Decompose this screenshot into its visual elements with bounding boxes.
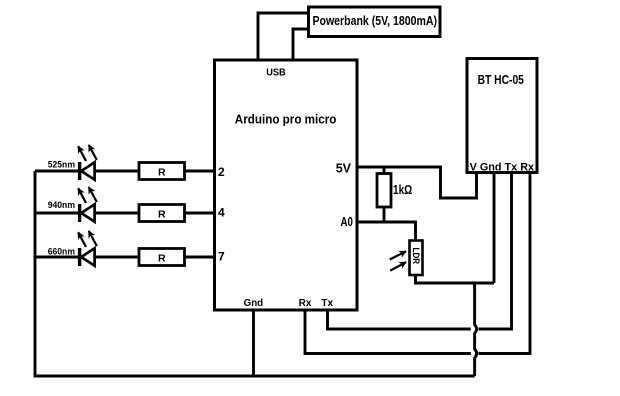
svg-text:Arduino pro micro: Arduino pro micro bbox=[235, 111, 337, 126]
wire ground net vertical with hops bbox=[475, 283, 477, 376]
wire USB right (Arduino top to Powerbank) bbox=[293, 29, 309, 60]
svg-text:5V: 5V bbox=[336, 162, 352, 176]
svg-text:V Gnd Tx Rx: V Gnd Tx Rx bbox=[470, 161, 535, 173]
svg-text:Gnd: Gnd bbox=[244, 298, 264, 309]
LED D3 660nm bbox=[48, 231, 97, 266]
svg-text:525nm: 525nm bbox=[48, 160, 75, 171]
resistor R2 bbox=[139, 205, 185, 222]
svg-text:660nm: 660nm bbox=[48, 246, 75, 257]
svg-text:A0: A0 bbox=[341, 215, 354, 229]
wire LED row3 to pin 7 bbox=[35, 256, 214, 259]
wire 5V to BT V pin bbox=[357, 167, 477, 198]
wire A0 to LDR top bbox=[357, 222, 416, 241]
light arrows into LDR bbox=[390, 251, 406, 259]
svg-text:4: 4 bbox=[218, 205, 225, 219]
BT module HC-05 bbox=[467, 59, 537, 174]
LED D1 525nm bbox=[48, 145, 97, 180]
svg-text:Rx: Rx bbox=[299, 298, 312, 309]
svg-text:2: 2 bbox=[218, 165, 225, 179]
wire Arduino Rx to BT Rx bbox=[305, 173, 530, 354]
svg-text:R: R bbox=[158, 166, 166, 178]
wire ground bus left and bottom bbox=[35, 171, 475, 376]
svg-text:R: R bbox=[158, 252, 166, 264]
wire Arduino Tx to BT Tx bbox=[328, 173, 512, 330]
svg-text:7: 7 bbox=[218, 250, 225, 264]
wire LDR bottom to ground net bbox=[416, 275, 495, 283]
powerbank PB1 bbox=[309, 7, 441, 37]
svg-text:Powerbank (5V, 1800mA): Powerbank (5V, 1800mA) bbox=[313, 14, 438, 28]
svg-text:R: R bbox=[158, 208, 166, 220]
svg-text:1kΩ: 1kΩ bbox=[393, 183, 412, 197]
svg-text:940nm: 940nm bbox=[48, 200, 75, 211]
wire BT Gnd pin drop bbox=[493, 173, 496, 284]
LDR R4 bbox=[390, 241, 423, 276]
wire USB left (Arduino top to Powerbank) bbox=[258, 13, 309, 60]
wire LED row1 to pin 2 bbox=[35, 170, 214, 173]
svg-text:USB: USB bbox=[266, 67, 286, 79]
svg-text:LDR: LDR bbox=[411, 248, 421, 265]
resistor R5 1k pull-up bbox=[377, 167, 412, 222]
MCU U1 Arduino pro micro bbox=[215, 60, 358, 310]
resistor R3 bbox=[139, 249, 185, 266]
resistor R1 bbox=[139, 163, 185, 180]
svg-text:Tx: Tx bbox=[321, 298, 333, 309]
svg-text:BT HC-05: BT HC-05 bbox=[478, 73, 524, 87]
LED D2 940nm bbox=[48, 187, 97, 222]
wire Arduino Gnd pin drop bbox=[252, 310, 255, 376]
wire LED row2 to pin 4 bbox=[35, 212, 214, 215]
